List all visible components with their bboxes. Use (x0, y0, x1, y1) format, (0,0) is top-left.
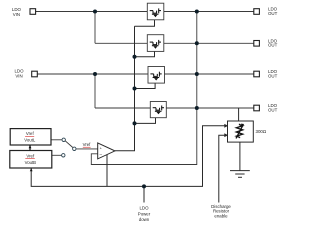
svg-text:300Ω: 300Ω (256, 129, 267, 134)
svg-text:VIN: VIN (15, 74, 22, 79)
svg-text:VoutL: VoutL (24, 138, 36, 143)
svg-text:LDO: LDO (139, 205, 149, 210)
svg-text:Vref: Vref (26, 131, 35, 136)
svg-text:OUT: OUT (268, 11, 278, 16)
svg-text:down: down (139, 217, 150, 222)
svg-text:enable: enable (214, 214, 228, 219)
svg-text:Power: Power (138, 211, 151, 216)
svg-text:Vref: Vref (26, 153, 35, 158)
svg-text:OUT: OUT (268, 43, 278, 48)
svg-text:–: – (100, 152, 103, 157)
svg-text:VoutB: VoutB (25, 160, 37, 165)
svg-text:Vref: Vref (83, 142, 92, 147)
svg-text:OUT: OUT (268, 107, 278, 112)
svg-text:OUT: OUT (268, 73, 278, 78)
svg-text:VIN: VIN (13, 12, 20, 17)
